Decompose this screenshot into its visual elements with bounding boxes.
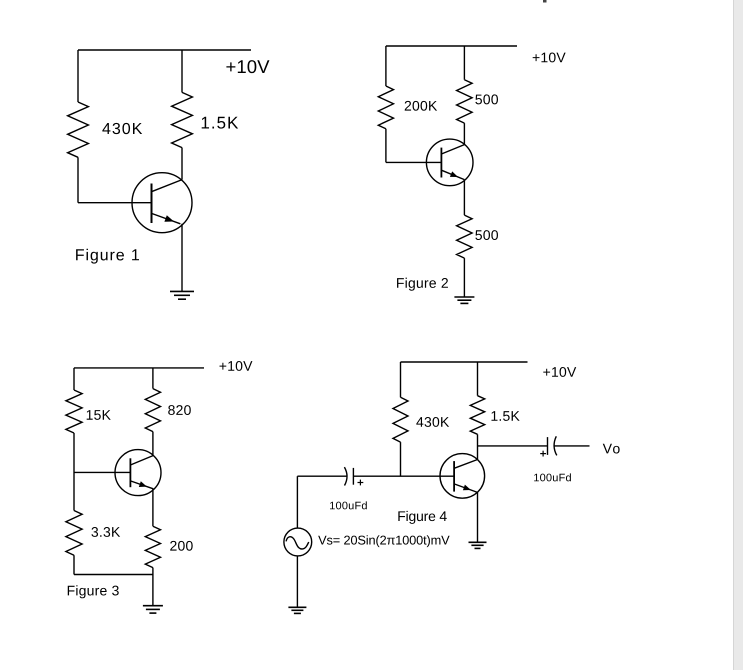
wire +10V rail (Figure 4) [401, 361, 528, 363]
wire source top (Figure 4) [296, 476, 298, 528]
source Vs sine (Figure 4) [284, 528, 312, 556]
resistor 430K (Figure 1) [68, 102, 89, 157]
wire 1.5K bottom to collector (Figure 1) [181, 148, 183, 180]
label Figure 2 [397, 278, 448, 291]
capacitor C1 100uFd input (Figure 4) [344, 467, 363, 485]
scrollbar strip right edge [733, 0, 743, 670]
wire +10V rail (Figure 3) [74, 367, 204, 369]
label 200K (Figure 2) [405, 101, 437, 111]
transistor Q3 (Figure 3) [115, 450, 161, 496]
label Vs equation (Figure 4) [318, 535, 449, 547]
wire 1.5K to collector node (Figure 4) [477, 434, 479, 459]
transistor Q2 (Figure 2) [426, 139, 473, 186]
wire base (Figure 2) [386, 161, 442, 163]
wire output (Figure 4) [555, 445, 590, 447]
wire base (Figure 1) [78, 202, 152, 204]
capacitor C2 100uFd output (Figure 4) [540, 436, 557, 456]
resistor 1.5K (Figure 1) [172, 92, 193, 147]
wire 430K bottom (Figure 4) [400, 442, 402, 476]
wire source to input cap (Figure 4) [297, 475, 346, 477]
resistor 500 emitter (Figure 2) [457, 215, 473, 258]
label 1.5K (Figure 1) [202, 117, 238, 129]
transistor Q1 (Figure 1) [132, 173, 192, 233]
ground (Figure 3) [143, 606, 163, 613]
wire bottom rail (Figure 3) [74, 574, 153, 576]
resistor 15K (Figure 3) [66, 390, 82, 433]
wire 500 to collector (Figure 2) [463, 123, 465, 145]
wire 15K to 3.3K (Figure 3) [73, 433, 75, 511]
wire input cap to base node (Figure 4) [353, 475, 400, 477]
wire emitter to ground (Figure 4) [477, 492, 479, 542]
wire to ground (Figure 3) [152, 575, 154, 606]
label Vo (Figure 4) [603, 444, 620, 454]
label 3.3K (Figure 3) [91, 527, 120, 537]
wire emitter to ground (Figure 1) [181, 224, 183, 292]
resistor 200K (Figure 2) [378, 86, 393, 129]
wire 1.5K top (Figure 1) [181, 50, 183, 92]
resistor 820 (Figure 3) [145, 389, 160, 432]
label Figure 3 [68, 585, 119, 598]
label 100uFd output (Figure 4) [534, 473, 571, 481]
label 1.5K (Figure 4) [491, 411, 519, 421]
label +10V (Figure 2) [533, 53, 566, 63]
label Figure 4 [398, 511, 446, 524]
wire base (Figure 3) [74, 471, 130, 473]
wire 1.5K top (Figure 4) [477, 362, 479, 396]
label 500 emitter (Figure 2) [475, 230, 498, 240]
label Figure 1 [76, 249, 139, 264]
label 820 (Figure 3) [168, 405, 191, 415]
ground emitter (Figure 4) [469, 542, 487, 548]
artifact top mark [543, 0, 547, 3]
resistor 430K (Figure 4) [393, 397, 408, 442]
wire 3.3K bottom (Figure 3) [73, 555, 75, 574]
label 430K (Figure 1) [102, 123, 142, 134]
wire 430K top (Figure 1) [77, 50, 79, 102]
resistor 1.5K (Figure 4) [470, 396, 484, 435]
wire 820 top (Figure 3) [152, 368, 154, 389]
label 15K (Figure 3) [87, 410, 111, 420]
wire collector to output cap (Figure 4) [478, 445, 548, 447]
wire 200K bottom (Figure 2) [385, 129, 387, 163]
ground (Figure 1) [170, 291, 194, 299]
label +10V (Figure 4) [543, 367, 576, 377]
ground source (Figure 4) [288, 607, 306, 613]
wire to ground (Figure 2) [463, 258, 465, 297]
label 500 collector (Figure 2) [475, 94, 498, 104]
wire 200K top (Figure 2) [385, 46, 387, 86]
label +10V (Figure 3) [219, 361, 252, 371]
wire 430K bottom to base (Figure 1) [77, 157, 79, 202]
label 430K (Figure 4) [416, 417, 449, 427]
resistor 3.3K (Figure 3) [66, 511, 82, 556]
wire 500 top (Figure 2) [463, 46, 465, 80]
label 100uFd input (Figure 4) [330, 501, 367, 509]
resistor 500 collector (Figure 2) [457, 80, 473, 123]
wire base (Figure 4) [401, 475, 455, 477]
wire 820 to collector (Figure 3) [152, 432, 154, 456]
wire +10V rail (Figure 2) [386, 45, 517, 47]
wire 200 bottom (Figure 3) [152, 568, 154, 575]
wire 15K top (Figure 3) [73, 368, 75, 390]
wire emitter (Figure 3) [152, 489, 154, 526]
label 200 (Figure 3) [170, 541, 193, 551]
ground (Figure 2) [454, 297, 474, 303]
label +10V (Figure 1) [226, 60, 269, 73]
wire 430K top (Figure 4) [400, 362, 402, 397]
transistor Q4 (Figure 4) [440, 454, 485, 499]
resistor 200 (Figure 3) [145, 526, 160, 567]
wire +10V rail (Figure 1) [78, 49, 251, 51]
wire source bottom (Figure 4) [296, 556, 298, 607]
wire emitter (Figure 2) [463, 180, 465, 216]
